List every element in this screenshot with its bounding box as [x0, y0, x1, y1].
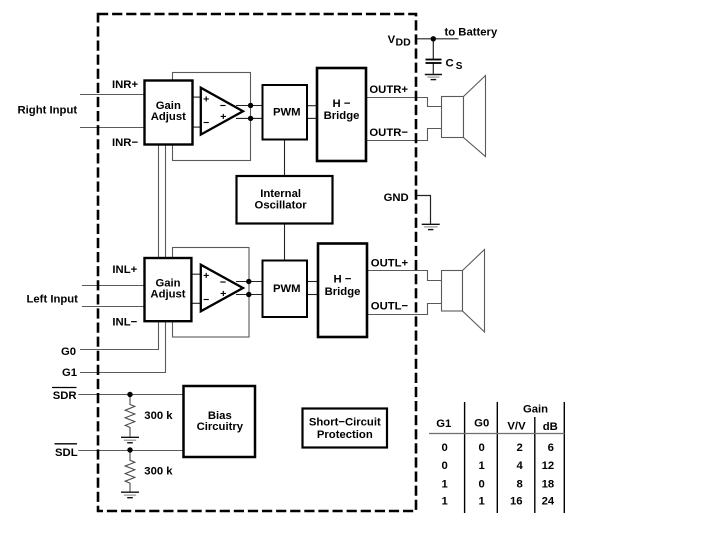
svg-text:SDR: SDR: [53, 390, 77, 402]
svg-text:to Battery: to Battery: [445, 26, 498, 38]
svg-text:V/V: V/V: [507, 421, 526, 433]
svg-text:G1: G1: [62, 367, 77, 379]
svg-text:−: −: [203, 117, 209, 129]
svg-text:1: 1: [441, 496, 447, 508]
svg-text:1: 1: [479, 496, 485, 508]
svg-text:Gain: Gain: [156, 100, 181, 112]
svg-text:INR−: INR−: [112, 137, 138, 149]
svg-text:OUTR+: OUTR+: [369, 84, 408, 96]
svg-text:S: S: [456, 61, 463, 72]
svg-text:+: +: [220, 111, 226, 123]
svg-text:0: 0: [441, 460, 447, 472]
svg-text:1: 1: [441, 478, 447, 490]
svg-text:PWM: PWM: [273, 107, 301, 119]
svg-text:INR+: INR+: [112, 79, 138, 91]
svg-text:V: V: [388, 34, 396, 46]
svg-text:+: +: [203, 94, 209, 106]
svg-text:18: 18: [542, 478, 555, 490]
svg-text:G1: G1: [436, 418, 451, 430]
svg-text:Adjust: Adjust: [151, 111, 186, 123]
svg-text:+: +: [220, 288, 226, 300]
svg-text:Right Input: Right Input: [18, 105, 78, 117]
svg-text:+: +: [203, 270, 209, 282]
svg-text:OUTL−: OUTL−: [371, 300, 409, 312]
svg-text:Adjust: Adjust: [150, 289, 185, 301]
svg-text:OUTL+: OUTL+: [371, 258, 409, 270]
svg-text:INL−: INL−: [112, 316, 137, 328]
svg-text:4: 4: [516, 460, 523, 472]
svg-text:G0: G0: [474, 418, 489, 430]
svg-text:PWM: PWM: [273, 283, 301, 295]
svg-text:0: 0: [479, 478, 485, 490]
svg-text:Protection: Protection: [317, 429, 373, 441]
svg-text:C: C: [446, 57, 454, 69]
svg-text:Gain: Gain: [523, 404, 548, 416]
svg-text:GND: GND: [384, 192, 409, 204]
svg-text:24: 24: [542, 496, 555, 508]
svg-text:Short−Circuit: Short−Circuit: [309, 417, 381, 429]
svg-text:2: 2: [516, 442, 522, 454]
svg-text:OUTR−: OUTR−: [369, 127, 408, 139]
svg-text:Oscillator: Oscillator: [255, 199, 308, 211]
svg-text:dB: dB: [543, 421, 558, 433]
svg-text:Gain: Gain: [155, 278, 180, 290]
svg-text:DD: DD: [396, 36, 412, 48]
svg-text:G0: G0: [61, 346, 76, 358]
svg-text:300 k: 300 k: [144, 410, 173, 422]
svg-text:−: −: [203, 294, 209, 306]
svg-text:Internal: Internal: [260, 188, 301, 200]
svg-text:8: 8: [516, 478, 522, 490]
svg-text:−: −: [220, 277, 226, 289]
svg-text:Left Input: Left Input: [27, 294, 79, 306]
svg-text:H −: H −: [334, 274, 352, 286]
svg-text:0: 0: [479, 442, 485, 454]
svg-text:SDL: SDL: [55, 447, 78, 459]
svg-text:H −: H −: [333, 98, 351, 110]
svg-text:0: 0: [441, 442, 447, 454]
svg-text:6: 6: [548, 442, 554, 454]
svg-text:INL+: INL+: [112, 264, 137, 276]
svg-text:Bias: Bias: [208, 410, 232, 422]
svg-text:16: 16: [510, 496, 523, 508]
svg-text:Circuitry: Circuitry: [197, 421, 244, 433]
svg-text:Bridge: Bridge: [325, 286, 361, 298]
svg-text:Bridge: Bridge: [324, 110, 360, 122]
svg-text:1: 1: [479, 460, 485, 472]
svg-text:300 k: 300 k: [144, 466, 173, 478]
svg-text:12: 12: [542, 460, 555, 472]
